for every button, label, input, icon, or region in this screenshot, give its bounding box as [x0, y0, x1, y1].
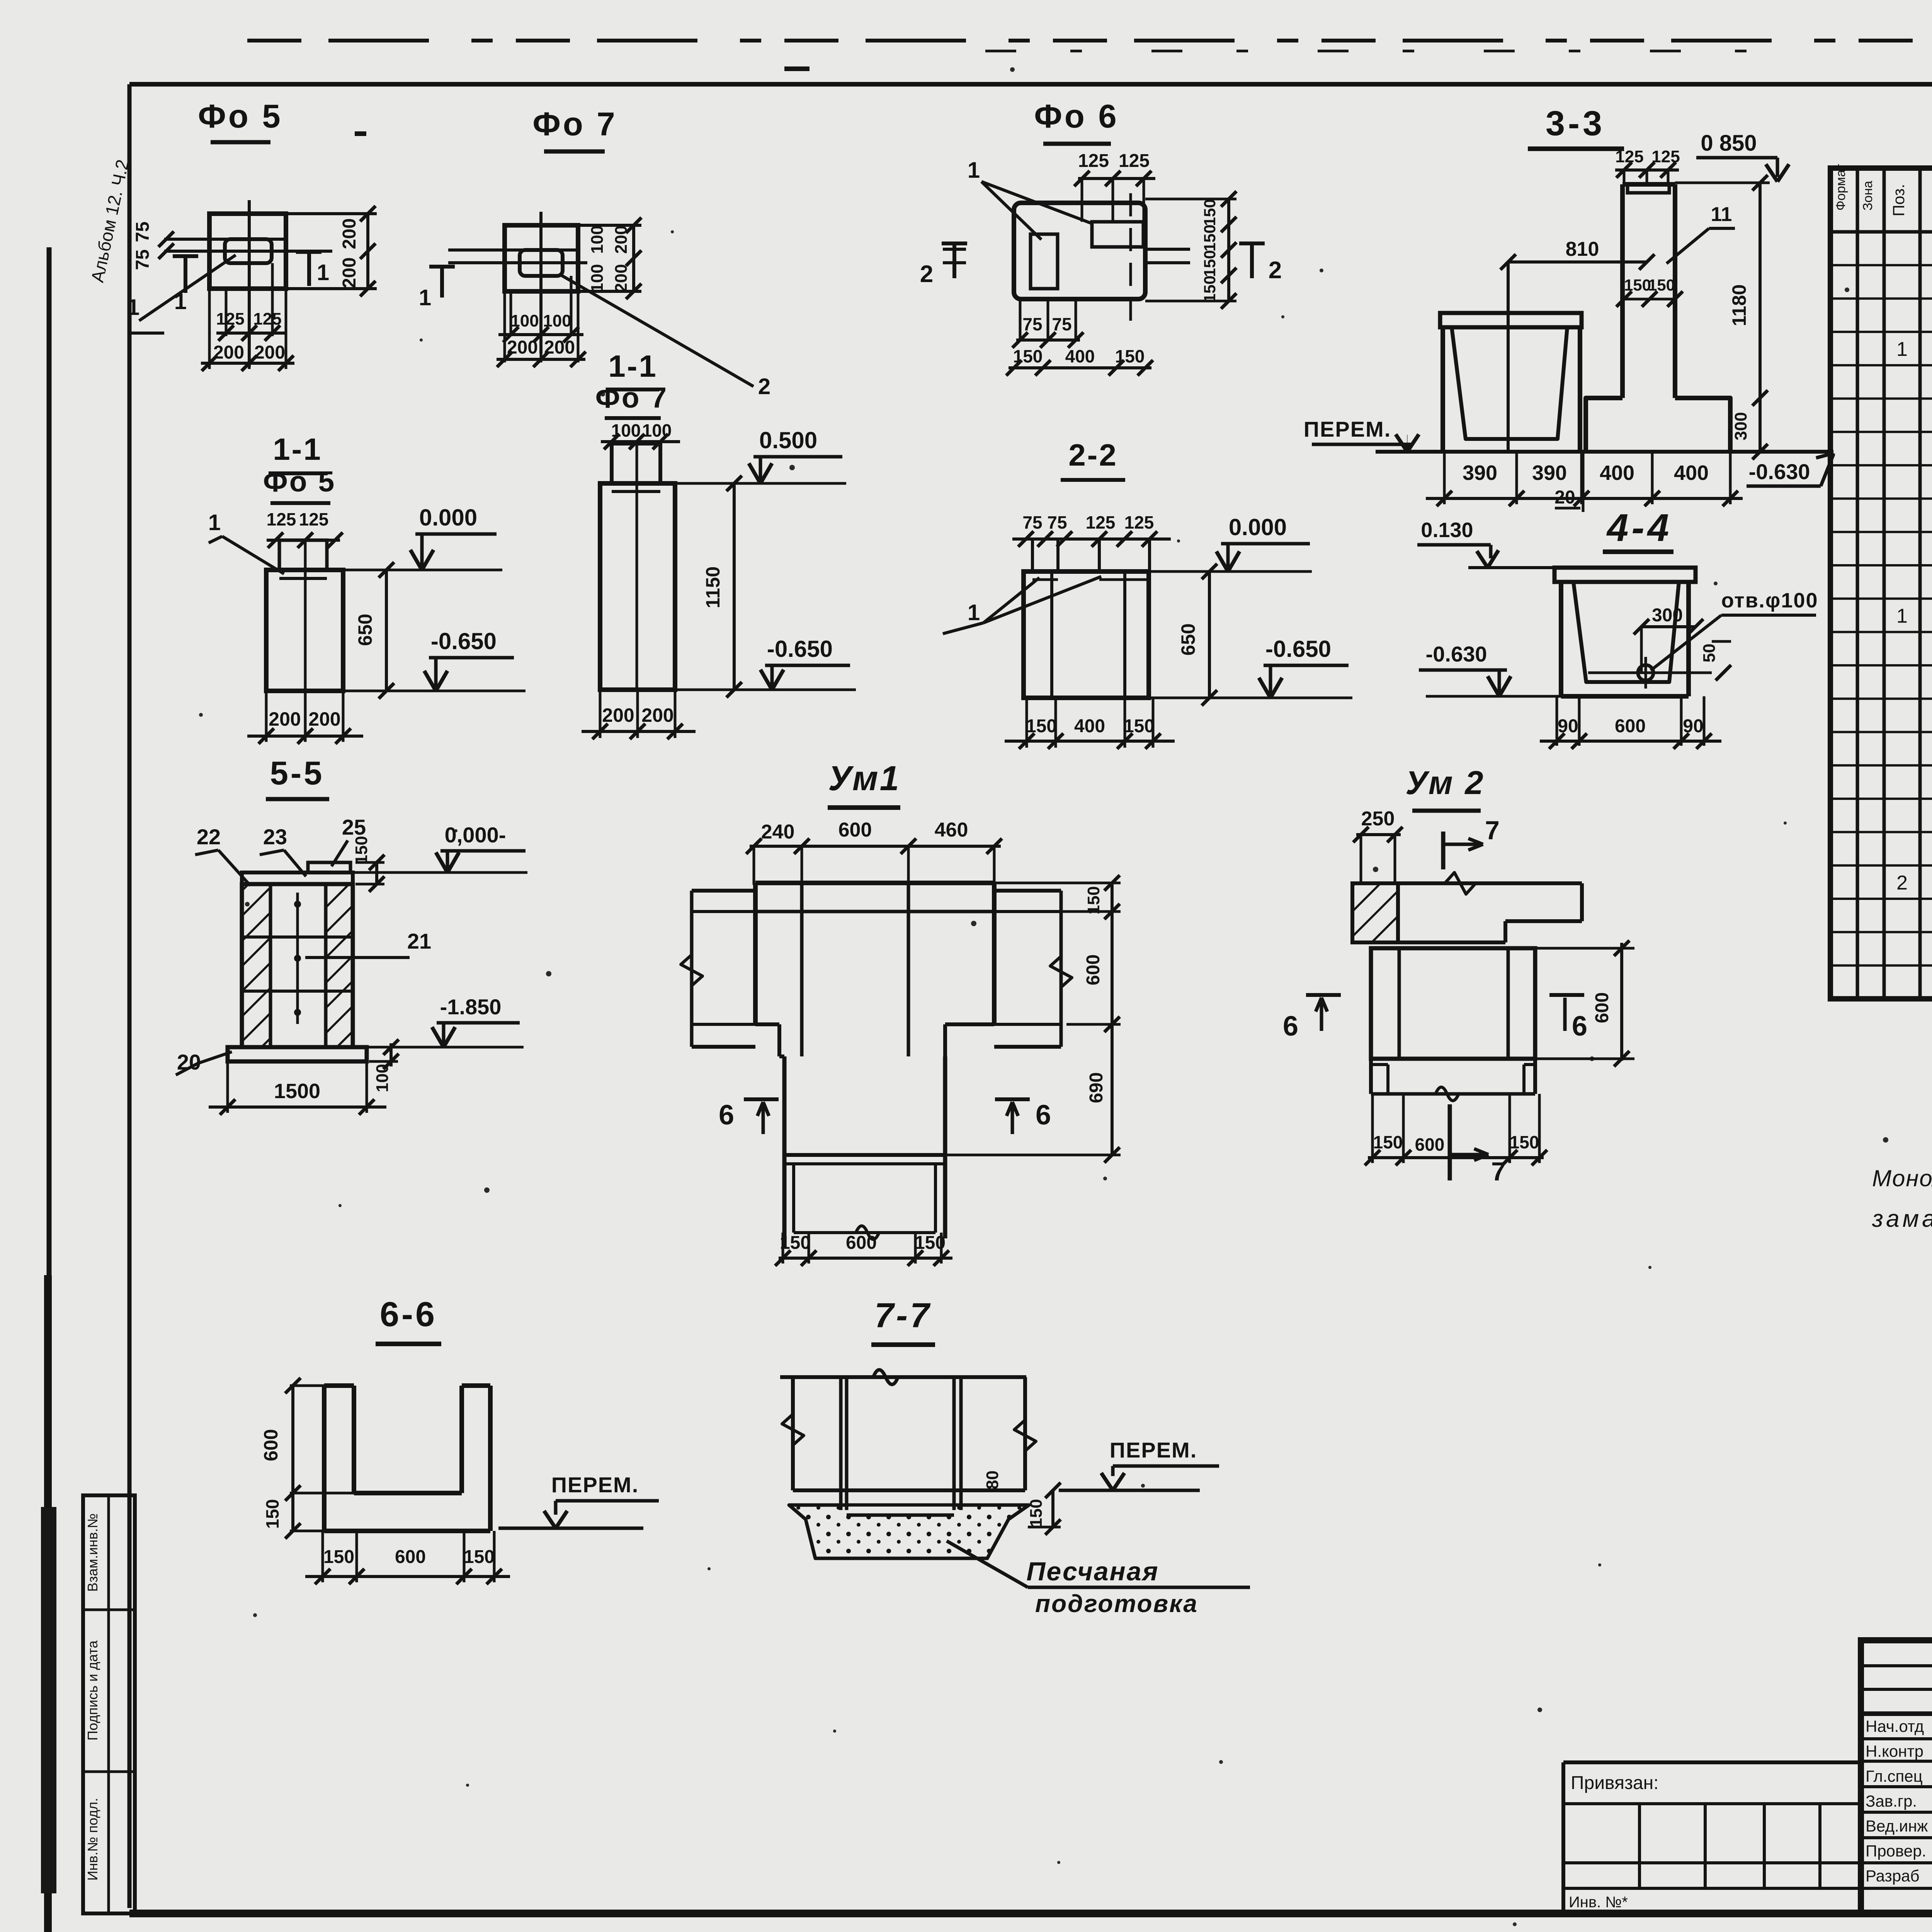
svg-text:Инв. №*: Инв. №* [1569, 1894, 1628, 1911]
svg-text:3-3: 3-3 [1546, 104, 1605, 143]
svg-text:Ум 2: Ум 2 [1405, 765, 1485, 801]
svg-text:200: 200 [269, 708, 301, 730]
svg-text:0 850: 0 850 [1701, 131, 1757, 156]
svg-text:150: 150 [1201, 224, 1219, 252]
svg-text:1: 1 [1896, 338, 1908, 361]
svg-text:-0.630: -0.630 [1426, 642, 1487, 666]
svg-text:90: 90 [1558, 716, 1578, 736]
svg-text:125: 125 [299, 509, 329, 529]
svg-text:1: 1 [317, 260, 329, 285]
svg-text:Фо 7: Фо 7 [595, 381, 668, 414]
svg-text:125: 125 [1124, 512, 1154, 532]
svg-text:20: 20 [1554, 487, 1575, 508]
svg-text:2-2: 2-2 [1068, 438, 1118, 472]
svg-text:390: 390 [1532, 461, 1567, 485]
svg-text:25: 25 [342, 815, 366, 839]
svg-text:4-4: 4-4 [1606, 506, 1672, 549]
svg-text:6: 6 [1283, 1011, 1298, 1042]
svg-text:125: 125 [1086, 512, 1116, 532]
svg-text:0.130: 0.130 [1421, 519, 1473, 542]
svg-text:Фо 7: Фо 7 [532, 106, 617, 143]
svg-text:150: 150 [1648, 276, 1675, 294]
svg-text:ПЕРЕМ.: ПЕРЕМ. [551, 1473, 639, 1497]
svg-text:600: 600 [260, 1429, 282, 1461]
svg-text:Вед.инж: Вед.инж [1866, 1817, 1928, 1835]
svg-text:22: 22 [197, 825, 221, 849]
svg-text:600: 600 [1415, 1134, 1445, 1155]
svg-text:125: 125 [216, 310, 244, 328]
svg-text:75: 75 [133, 249, 153, 270]
svg-text:7-7: 7-7 [874, 1296, 932, 1335]
svg-text:150: 150 [323, 1547, 354, 1567]
svg-text:600: 600 [395, 1547, 426, 1567]
svg-text:150: 150 [464, 1547, 495, 1567]
svg-text:7: 7 [1485, 816, 1500, 845]
svg-text:150: 150 [262, 1499, 282, 1529]
svg-text:125: 125 [1078, 151, 1109, 171]
svg-text:Разраб: Разраб [1866, 1867, 1920, 1885]
svg-text:150: 150 [780, 1233, 811, 1253]
svg-text:1-1: 1-1 [608, 349, 658, 383]
svg-text:Фо 5: Фо 5 [198, 98, 282, 135]
svg-text:-0.630: -0.630 [1749, 459, 1810, 484]
svg-text:690: 690 [1086, 1072, 1107, 1103]
svg-text:200: 200 [641, 704, 673, 726]
svg-text:1: 1 [1896, 605, 1908, 627]
svg-text:Фо 6: Фо 6 [1034, 98, 1119, 135]
svg-text:200: 200 [612, 264, 631, 292]
svg-text:6: 6 [719, 1100, 734, 1131]
svg-text:240: 240 [761, 821, 795, 843]
svg-text:Формат: Формат [1833, 164, 1848, 211]
svg-text:600: 600 [1615, 716, 1646, 736]
svg-text:1: 1 [968, 158, 980, 183]
svg-text:отв.φ100: отв.φ100 [1721, 589, 1818, 612]
svg-text:150: 150 [1510, 1132, 1539, 1152]
svg-text:200: 200 [544, 337, 575, 358]
svg-text:125: 125 [267, 509, 296, 529]
svg-text:150: 150 [1201, 250, 1219, 277]
svg-text:11: 11 [1711, 203, 1732, 226]
svg-text:ПЕРЕМ.: ПЕРЕМ. [1304, 417, 1391, 441]
svg-text:250: 250 [1361, 808, 1395, 830]
svg-text:0.500: 0.500 [759, 427, 817, 453]
svg-text:замаркированы на листе 98.: замаркированы на листе 98. [1872, 1206, 1932, 1232]
svg-text:400: 400 [1600, 461, 1634, 485]
svg-text:100: 100 [588, 264, 607, 292]
svg-text:6: 6 [1572, 1011, 1587, 1042]
svg-text:Н.контр: Н.контр [1866, 1742, 1923, 1760]
svg-text:80: 80 [983, 1471, 1002, 1490]
svg-text:390: 390 [1463, 461, 1497, 485]
svg-text:600: 600 [846, 1233, 877, 1253]
svg-text:21: 21 [407, 929, 431, 953]
svg-text:-0.650: -0.650 [431, 628, 497, 654]
svg-text:100: 100 [510, 311, 539, 330]
svg-text:0.000: 0.000 [1229, 514, 1287, 540]
svg-text:75: 75 [1022, 314, 1042, 334]
svg-text:Поз.: Поз. [1889, 184, 1908, 216]
svg-text:6: 6 [1036, 1100, 1051, 1131]
svg-text:1180: 1180 [1728, 284, 1750, 326]
svg-text:150: 150 [1026, 716, 1057, 736]
svg-text:6-6: 6-6 [380, 1295, 437, 1334]
svg-text:300: 300 [1731, 412, 1750, 440]
svg-text:0.000: 0.000 [419, 505, 477, 531]
svg-text:Фо 5: Фо 5 [263, 465, 336, 498]
svg-text:400: 400 [1065, 346, 1095, 366]
svg-text:Песчаная: Песчаная [1026, 1557, 1159, 1586]
svg-text:600: 600 [1083, 954, 1104, 985]
svg-text:90: 90 [1683, 716, 1703, 736]
svg-text:75: 75 [133, 221, 153, 242]
svg-text:150: 150 [1373, 1132, 1403, 1152]
svg-text:150: 150 [1624, 276, 1651, 294]
svg-text:ПЕРЕМ.: ПЕРЕМ. [1110, 1438, 1197, 1462]
svg-text:125: 125 [1119, 151, 1150, 171]
svg-text:Подпись и дата: Подпись и дата [85, 1640, 100, 1741]
svg-text:5-5: 5-5 [270, 755, 325, 792]
svg-text:Монолитный участок Ум1;Ум2: Монолитный участок Ум1;Ум2 и фундаменты … [1872, 1165, 1932, 1191]
svg-text:200: 200 [339, 257, 360, 288]
svg-text:1150: 1150 [702, 566, 724, 608]
svg-text:200: 200 [612, 225, 631, 253]
svg-text:150: 150 [1124, 716, 1155, 736]
svg-text:600: 600 [838, 819, 872, 841]
svg-text:2: 2 [920, 261, 933, 287]
svg-text:150: 150 [1027, 1499, 1046, 1527]
svg-text:300: 300 [1652, 605, 1683, 626]
svg-text:2: 2 [1269, 257, 1282, 284]
svg-text:650: 650 [354, 614, 376, 646]
svg-text:150: 150 [1201, 276, 1219, 303]
svg-text:75: 75 [1052, 314, 1071, 334]
svg-text:Ум1: Ум1 [828, 759, 900, 798]
svg-text:200: 200 [213, 342, 244, 363]
svg-text:2: 2 [1896, 872, 1908, 894]
svg-text:1: 1 [127, 295, 139, 320]
svg-text:Инв.№ подл.: Инв.№ подл. [85, 1798, 100, 1881]
svg-text:200: 200 [308, 708, 340, 730]
svg-text:125: 125 [253, 310, 281, 328]
svg-text:Гл.спец: Гл.спец [1866, 1767, 1923, 1785]
svg-text:1: 1 [208, 510, 221, 535]
svg-text:2: 2 [758, 374, 770, 399]
svg-text:Нач.отд: Нач.отд [1866, 1717, 1924, 1735]
svg-text:23: 23 [263, 825, 287, 849]
svg-text:1500: 1500 [274, 1080, 320, 1103]
svg-text:1: 1 [419, 285, 431, 310]
svg-text:Провер.: Провер. [1866, 1842, 1926, 1860]
svg-text:600: 600 [1592, 992, 1612, 1023]
svg-text:200: 200 [339, 218, 360, 249]
svg-text:Зав.гр.: Зав.гр. [1866, 1792, 1917, 1810]
svg-text:20: 20 [177, 1050, 201, 1074]
svg-text:100: 100 [588, 225, 607, 253]
svg-text:0,000-: 0,000- [445, 823, 506, 847]
svg-text:810: 810 [1566, 238, 1599, 260]
svg-text:Зона: Зона [1861, 181, 1875, 211]
svg-text:200: 200 [254, 342, 285, 363]
svg-text:1-1: 1-1 [273, 432, 322, 466]
svg-text:1: 1 [968, 600, 980, 625]
svg-text:650: 650 [1177, 623, 1199, 655]
svg-text:-1.850: -1.850 [440, 995, 502, 1019]
svg-text:Привязан:: Привязан: [1571, 1773, 1659, 1793]
svg-text:200: 200 [602, 704, 634, 726]
svg-text:50: 50 [1700, 644, 1719, 663]
svg-text:Взам.инв.№: Взам.инв.№ [85, 1513, 100, 1592]
svg-text:460: 460 [935, 819, 968, 841]
svg-text:150: 150 [352, 836, 371, 864]
svg-text:150: 150 [1201, 199, 1219, 226]
svg-text:-0.650: -0.650 [1265, 636, 1331, 662]
svg-text:75: 75 [1022, 512, 1042, 532]
svg-text:400: 400 [1674, 461, 1709, 485]
svg-text:-0.650: -0.650 [767, 636, 833, 662]
svg-text:подготовка: подготовка [1035, 1590, 1198, 1617]
svg-text:400: 400 [1074, 716, 1105, 736]
svg-text:75: 75 [1047, 512, 1067, 532]
svg-text:100: 100 [642, 420, 672, 440]
